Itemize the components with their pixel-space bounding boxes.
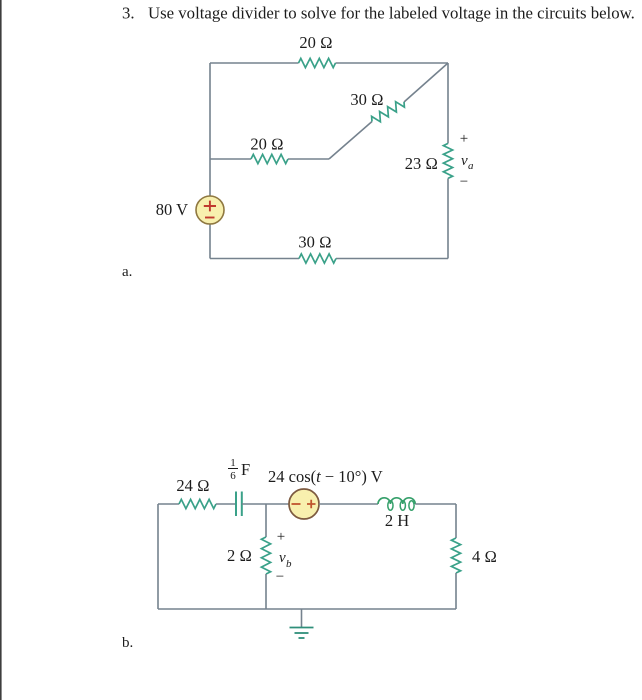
ac source 24cos(t-10) xyxy=(289,489,319,519)
svg-text:−: − xyxy=(276,569,284,585)
wire: middle branch lower (circuit b) xyxy=(265,574,267,609)
svg-text:24 cos(t − 10°) V: 24 cos(t − 10°) V xyxy=(268,467,383,486)
wire: diagonal upper segment (circuit a) xyxy=(404,63,448,102)
resistor 20 ohm (top) xyxy=(299,58,336,67)
ground xyxy=(290,609,314,638)
resistor 23 ohm xyxy=(443,143,452,178)
svg-text:+: + xyxy=(277,529,285,545)
svg-text:Use voltage divider to solve f: Use voltage divider to solve for the lab… xyxy=(148,4,635,23)
wire: left side (circuit b) xyxy=(157,504,159,609)
wire: source to inductor (circuit b) xyxy=(319,503,378,505)
wire: right side upper (circuit b) xyxy=(455,504,457,538)
svg-text:80 V: 80 V xyxy=(156,200,188,219)
svg-text:6: 6 xyxy=(230,470,236,482)
resistor 4 ohm xyxy=(451,538,460,573)
resistor 30 ohm (bottom) xyxy=(299,254,336,263)
resistor 24 ohm xyxy=(179,499,216,508)
svg-text:24 Ω: 24 Ω xyxy=(176,476,209,495)
svg-text:2 H: 2 H xyxy=(385,511,409,530)
wire: right side upper (circuit a) xyxy=(447,63,449,143)
svg-text:30 Ω: 30 Ω xyxy=(298,233,331,252)
svg-text:20 Ω: 20 Ω xyxy=(299,33,332,52)
svg-text:23 Ω: 23 Ω xyxy=(405,154,438,173)
svg-text:F: F xyxy=(241,460,250,479)
wire: between 24 ohm and capacitor xyxy=(216,503,236,505)
svg-text:−: − xyxy=(460,174,468,190)
svg-text:a.: a. xyxy=(122,264,132,280)
wire: left side upper (circuit a) xyxy=(209,63,211,196)
wire: inductor to right corner (circuit b) xyxy=(415,503,456,505)
svg-text:30 Ω: 30 Ω xyxy=(350,90,383,109)
capacitor 1/6 F xyxy=(236,492,242,517)
svg-text:1: 1 xyxy=(230,457,236,469)
resistor 20 ohm (middle) xyxy=(251,154,288,163)
wire: top side of circuit a xyxy=(210,62,299,64)
svg-text:v: v xyxy=(279,550,286,566)
resistor 2 ohm xyxy=(261,537,270,574)
svg-text:3.: 3. xyxy=(122,4,135,23)
wire: right side lower (circuit b) xyxy=(455,573,457,609)
wire: capacitor to source (circuit b) xyxy=(242,503,289,505)
wire: left side lower (circuit a) xyxy=(209,224,211,259)
svg-text:b: b xyxy=(286,558,292,570)
svg-text:b.: b. xyxy=(122,635,133,651)
resistor 30 ohm (diagonal) xyxy=(372,102,405,122)
inductor 2 H xyxy=(378,498,415,511)
wire: bottom side (circuit b) xyxy=(158,608,456,610)
svg-text:a: a xyxy=(468,160,474,172)
svg-text:v: v xyxy=(461,153,468,169)
svg-text:+: + xyxy=(460,131,468,147)
wire: bottom side (circuit a) xyxy=(210,258,299,260)
voltage source 80 V xyxy=(196,196,224,224)
label 1/6 F xyxy=(228,457,250,482)
page left border line xyxy=(0,0,2,700)
wire: middle branch upper (circuit b) xyxy=(265,504,267,537)
svg-text:20 Ω: 20 Ω xyxy=(250,135,283,154)
wire: right side lower (circuit a) xyxy=(447,178,449,258)
wire: top left segment (circuit b) xyxy=(158,503,179,505)
wire: diagonal lower segment (circuit a) xyxy=(329,122,372,160)
wire: middle horizontal (circuit a) xyxy=(210,158,251,160)
svg-text:2 Ω: 2 Ω xyxy=(227,546,252,565)
svg-text:4 Ω: 4 Ω xyxy=(472,547,497,566)
